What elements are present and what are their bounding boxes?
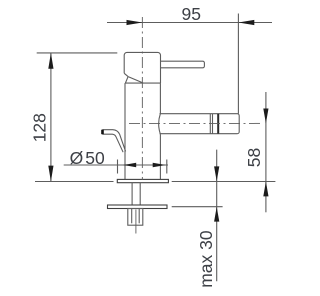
dim 128: dimension line bbox=[50, 53, 52, 182]
dim max30: dimension line bbox=[216, 150, 218, 282]
arrow Ø50 right (points right) bbox=[153, 163, 166, 167]
dim max30: locknut extension line bbox=[172, 206, 223, 208]
spout outline bbox=[160, 114, 240, 134]
aerator groove lines bbox=[209, 114, 211, 134]
svg-text:58: 58 bbox=[244, 148, 264, 167]
locknut plate bbox=[108, 205, 168, 209]
vertical centerline of body bbox=[141, 17, 143, 180]
tail inner line left bbox=[131, 209, 133, 224]
handle lever bbox=[161, 61, 205, 68]
dim 128: top extension line bbox=[37, 52, 118, 54]
body right edge lower bbox=[159, 134, 161, 179]
arrow 95 right (points left) bbox=[238, 20, 254, 25]
head chamfer line bbox=[124, 73, 128, 76]
base flange bbox=[117, 179, 168, 182]
dim 58: dimension line bbox=[265, 92, 267, 212]
svg-text:max 30: max 30 bbox=[196, 230, 216, 288]
arrow 128 top (points up) bbox=[48, 53, 53, 69]
threaded tail outline bbox=[128, 209, 143, 226]
dim 95: dimension line bbox=[107, 22, 272, 24]
dim Ø50: right tick bbox=[166, 160, 168, 174]
body-spout intersection curve bbox=[159, 114, 161, 135]
svg-text:Ø: Ø bbox=[70, 148, 84, 168]
shank right line bbox=[139, 183, 141, 205]
dim Ø50: dimension line bbox=[64, 164, 168, 166]
svg-text:95: 95 bbox=[182, 4, 201, 24]
arrow 58 bottom (points up) bbox=[263, 182, 268, 197]
arrow Ø50 left (points left) bbox=[123, 163, 136, 167]
body right edge upper bbox=[159, 83, 161, 114]
head skirt line bbox=[125, 77, 128, 84]
hook rod end cap bbox=[101, 130, 104, 135]
tail inner line right bbox=[138, 209, 140, 224]
faucet head (cartridge cap) bbox=[124, 52, 160, 83]
head bottom edge bbox=[125, 82, 161, 84]
arrow 128 bottom (points down) bbox=[48, 166, 53, 182]
dim 128: bottom extension line bbox=[35, 181, 114, 183]
dim Ø50: left tick bbox=[117, 160, 119, 174]
dim 95: right extension line bbox=[237, 14, 239, 114]
svg-text:128: 128 bbox=[30, 113, 50, 142]
horizontal centerline of spout bbox=[129, 122, 262, 124]
arrow max30 bottom (points up) bbox=[214, 207, 219, 222]
lever tilt line bbox=[128, 77, 143, 84]
tail centerline bbox=[135, 210, 137, 234]
arrow 95 left (points right) bbox=[127, 20, 143, 25]
aerator joint thick line bbox=[217, 114, 219, 134]
dim 58 / max30: base plane extension line bbox=[172, 181, 276, 183]
arrow 58 top (points down) bbox=[263, 109, 268, 124]
arrow max30 top (points down) bbox=[214, 166, 219, 181]
shank left line bbox=[131, 183, 133, 205]
body left edge bbox=[124, 83, 126, 179]
svg-text:50: 50 bbox=[85, 148, 105, 168]
hand-spray hook rod bbox=[102, 130, 125, 153]
